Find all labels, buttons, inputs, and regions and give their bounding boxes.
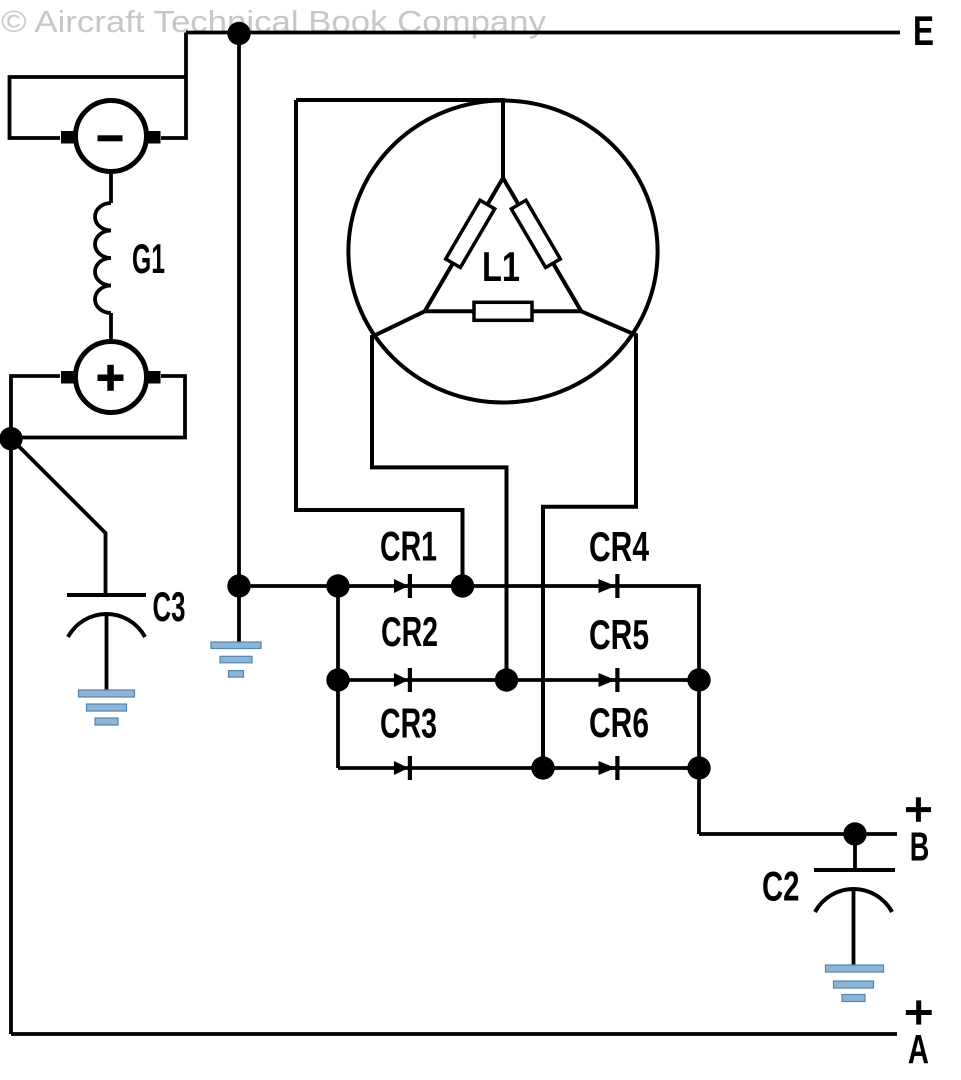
wire B dot to C2	[853, 834, 857, 870]
junction node top bus	[227, 22, 250, 45]
ground at C2	[826, 965, 884, 1002]
wire rectifier row 3	[338, 766, 699, 770]
generator G1 plus brush circle	[61, 342, 161, 413]
wire plus-loop right	[11, 376, 185, 438]
svg-text:G1: G1	[132, 235, 165, 282]
wire minus-loop upper horizontal	[10, 77, 187, 138]
wire stator left frame	[296, 100, 463, 586]
inductor coil of G1	[95, 203, 111, 313]
wire coil to plus circle	[109, 313, 113, 340]
junction node row2 phase	[495, 668, 518, 691]
diode CR4	[599, 574, 620, 598]
junction node B	[843, 822, 866, 845]
svg-text:C3: C3	[153, 583, 186, 630]
diode CR2	[394, 668, 412, 692]
ground at C3	[79, 690, 135, 725]
winding element bottom	[474, 302, 532, 320]
junction node row1 left	[227, 574, 250, 597]
wire bottom bus A	[11, 1032, 897, 1036]
svg-text:C2: C2	[762, 863, 800, 910]
wire rectifier row 1	[239, 586, 699, 834]
wire left rail down to bottom bus	[9, 438, 13, 1034]
svg-text:CR1: CR1	[380, 523, 437, 570]
capacitor C3	[67, 595, 146, 690]
wire diagonal to C3	[11, 439, 106, 596]
capacitor C2	[814, 870, 895, 965]
svg-text:B: B	[910, 824, 930, 870]
junction node row1 phase	[451, 574, 474, 597]
diode CR6	[599, 756, 620, 780]
junction node left rail	[0, 427, 23, 450]
diode CR3	[394, 756, 412, 780]
wire B output	[699, 832, 897, 836]
svg-text:A: A	[908, 1026, 929, 1072]
svg-text:L1: L1	[482, 243, 520, 290]
winding element right	[511, 200, 560, 267]
junction node row3 phase	[531, 756, 554, 779]
wire BR vertex extension	[543, 311, 636, 768]
ground at main vertical	[211, 642, 261, 677]
wire main left vertical (top bus to rectifier)	[237, 33, 241, 587]
svg-text:CR6: CR6	[589, 699, 649, 746]
wire from main vertical down to ground	[237, 586, 241, 643]
svg-text:CR3: CR3	[380, 700, 437, 747]
stator circle L1	[348, 101, 657, 403]
junction node row1 branch	[326, 574, 349, 597]
winding element left	[446, 200, 495, 267]
wire rectifier row 2	[338, 678, 699, 682]
wire BL vertex extension	[372, 311, 507, 680]
svg-text:CR4: CR4	[589, 523, 649, 570]
svg-text:CR2: CR2	[381, 608, 438, 655]
svg-text:E: E	[913, 7, 934, 54]
junction node row2 branch	[326, 668, 349, 691]
wire stator top feed	[296, 100, 503, 178]
wire G1 minus circle to coil	[109, 173, 113, 203]
wire rectifier left branch	[336, 586, 340, 768]
generator G1 minus brush circle	[61, 101, 161, 172]
label + B plus	[906, 797, 931, 822]
diode CR5	[599, 668, 620, 692]
delta winding triangle	[425, 178, 582, 311]
junction node row2 right	[687, 668, 710, 691]
junction node row3 right	[687, 756, 710, 779]
label + A plus	[906, 1000, 932, 1024]
wire minus-loop right vertical	[161, 33, 186, 139]
svg-text:CR5: CR5	[589, 611, 649, 658]
wire plus-loop left	[11, 376, 60, 438]
wire top bus E	[186, 31, 900, 35]
diode CR1	[394, 574, 412, 598]
